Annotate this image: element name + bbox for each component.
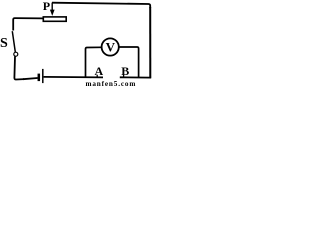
battery: long thin plate (positive) [42, 69, 44, 83]
terminal tick B [123, 75, 125, 78]
svg-text:A: A [95, 64, 104, 78]
terminal tick A [96, 75, 98, 78]
wire: voltmeter branch left vertical [86, 47, 102, 77]
wire: left lower vertical [14, 56, 24, 79]
svg-text:P: P [43, 0, 50, 13]
switch S pivot circle [14, 52, 18, 56]
svg-text:manfen5.com: manfen5.com [86, 80, 137, 87]
wire: bottom middle horizontal (battery to terminal A side) [44, 76, 103, 79]
svg-text:V: V [106, 40, 116, 55]
battery: short thick plate (negative) [38, 74, 41, 82]
wire: top horizontal (slider to top-right corner) [52, 3, 150, 8]
rheostat slider arrow [51, 3, 53, 11]
wire: bottom-left horizontal (to battery) [23, 78, 38, 79]
wire: voltmeter branch right horizontal + vertical [119, 47, 139, 77]
svg-text:S: S [0, 36, 8, 51]
wire: right vertical [149, 7, 151, 78]
svg-text:B: B [121, 64, 129, 78]
voltmeter V circle [102, 38, 119, 55]
rheostat P body [43, 17, 66, 21]
wire: top-left horizontal (battery loop to rheostat left terminal) [13, 18, 43, 30]
wire: bottom-right horizontal (terminal B side to corner) [120, 76, 151, 78]
switch S blade [12, 31, 15, 52]
